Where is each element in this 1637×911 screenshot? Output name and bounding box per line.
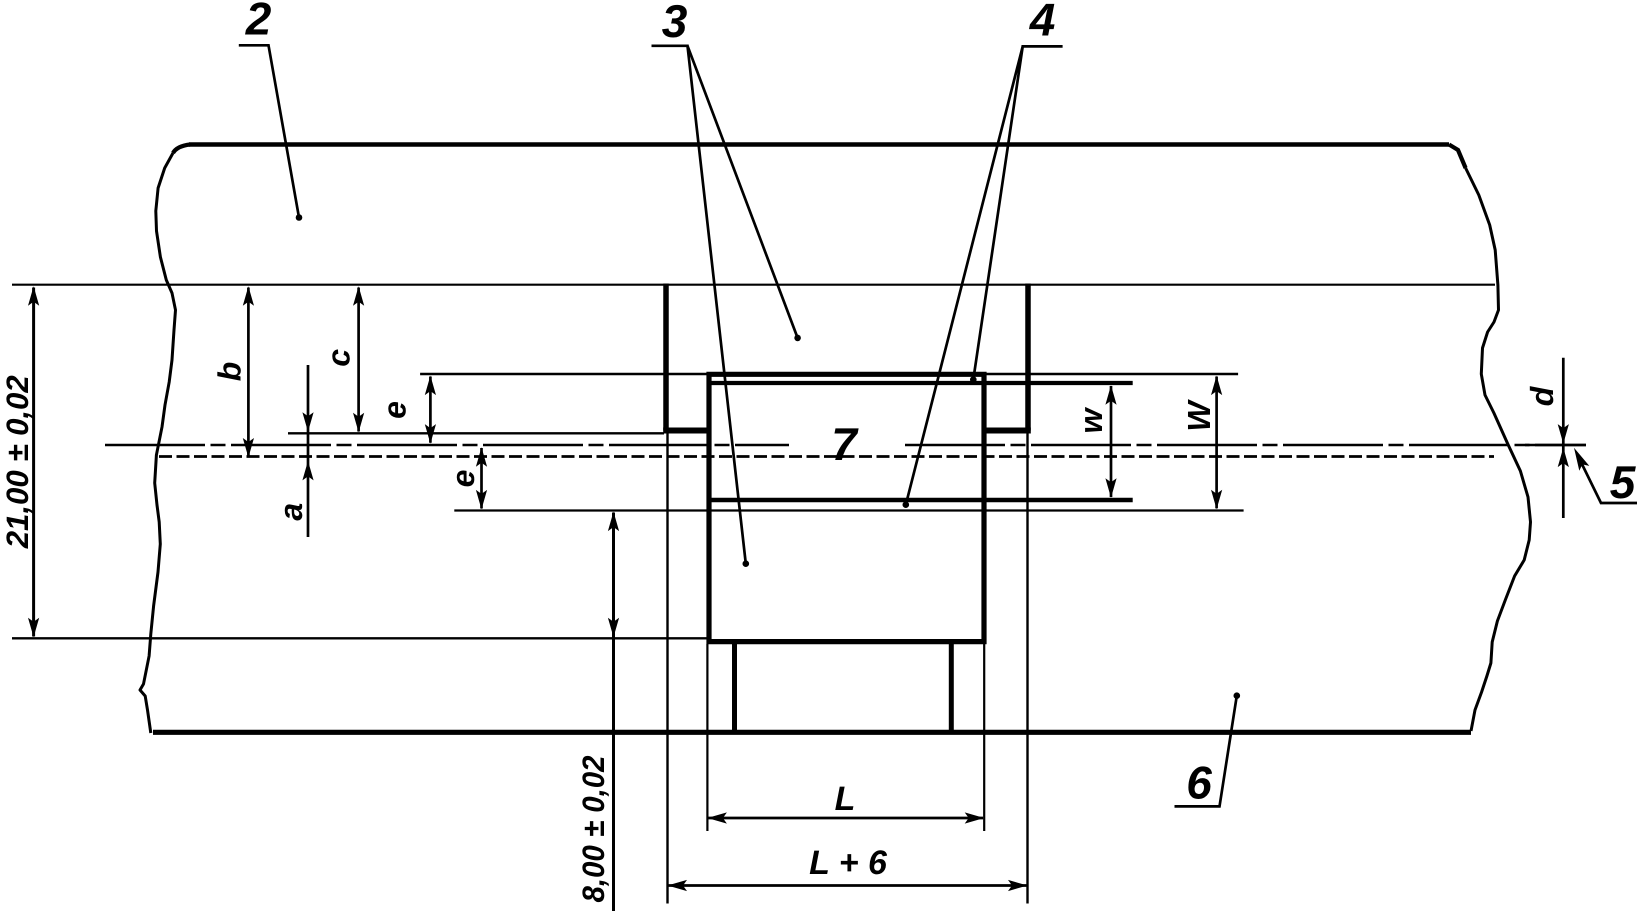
dimension e (upper) bbox=[429, 377, 432, 443]
svg-text:e: e bbox=[377, 401, 413, 419]
label 2 underline and leader bbox=[239, 45, 299, 217]
dimension w bbox=[1110, 386, 1113, 497]
svg-text:21,00 ± 0,02: 21,00 ± 0,02 bbox=[0, 375, 35, 549]
cavity right wall bbox=[1025, 284, 1031, 431]
svg-text:6: 6 bbox=[1186, 756, 1212, 808]
c extension line (ledge level) bbox=[288, 432, 664, 434]
d reference line (solid centerline end) bbox=[1525, 444, 1586, 447]
dimension b bbox=[247, 288, 250, 457]
svg-text:5: 5 bbox=[1610, 456, 1637, 508]
component top line (w upper line) bbox=[707, 381, 1133, 385]
L+6 right extension line bbox=[1026, 433, 1028, 904]
tape inner top line (21.00 upper extension line) bbox=[12, 284, 1495, 286]
dimension W bbox=[1215, 377, 1218, 509]
svg-text:a: a bbox=[273, 503, 309, 521]
svg-text:8,00 ± 0,02: 8,00 ± 0,02 bbox=[576, 756, 611, 903]
svg-text:L: L bbox=[835, 780, 856, 818]
tape top edge bbox=[189, 142, 1449, 147]
svg-text:4: 4 bbox=[1029, 0, 1056, 46]
dimension d bbox=[1562, 358, 1565, 518]
dimension a bbox=[307, 365, 310, 537]
left step ledge bbox=[663, 428, 709, 434]
dimension e (lower) bbox=[480, 448, 483, 509]
right break line bbox=[1466, 168, 1531, 731]
W lower extension line bbox=[454, 509, 1243, 511]
centerline (dash-dot) bbox=[105, 444, 1586, 447]
L right extension line bbox=[983, 644, 985, 831]
svg-text:b: b bbox=[212, 362, 248, 382]
dimension 8,00 +/- 0,02 bbox=[612, 513, 615, 911]
left break line bbox=[140, 153, 176, 733]
label 6 underline and leader bbox=[1175, 696, 1237, 807]
tape bottom edge bbox=[153, 730, 1471, 735]
dimension L+6 bbox=[669, 884, 1027, 887]
component bottom line (w lower line) bbox=[707, 498, 1133, 502]
svg-text:W: W bbox=[1181, 399, 1217, 432]
svg-text:L + 6: L + 6 bbox=[809, 844, 888, 882]
tape top-left corner bbox=[173, 145, 190, 154]
reference dashed line bbox=[159, 455, 1494, 458]
dimension 21,00 +/- 0,02 bbox=[32, 288, 35, 637]
protrusion left wall bbox=[732, 641, 737, 733]
right step ledge bbox=[984, 428, 1031, 434]
tape top-right corner bbox=[1449, 145, 1466, 169]
svg-text:2: 2 bbox=[245, 0, 272, 45]
label 4 underline and leaders bbox=[906, 46, 1063, 504]
label 5 underline and arrow leader bbox=[1578, 456, 1637, 503]
svg-text:3: 3 bbox=[662, 0, 688, 47]
dimension L bbox=[709, 817, 984, 820]
L left extension line bbox=[706, 644, 708, 831]
L+6 left extension line bbox=[666, 433, 668, 904]
svg-text:w: w bbox=[1073, 406, 1109, 433]
svg-text:e: e bbox=[445, 470, 481, 488]
svg-text:c: c bbox=[320, 349, 356, 367]
cavity left wall bbox=[663, 284, 669, 431]
svg-text:d: d bbox=[1524, 385, 1560, 406]
21.00 lower extension line bbox=[12, 637, 707, 639]
protrusion right wall bbox=[949, 641, 954, 733]
dimension c bbox=[357, 288, 360, 432]
W upper extension line bbox=[420, 373, 1238, 376]
label 3 underline and leaders bbox=[652, 46, 798, 564]
pocket box (cavity outline) bbox=[707, 372, 987, 644]
svg-text:7: 7 bbox=[831, 418, 859, 470]
